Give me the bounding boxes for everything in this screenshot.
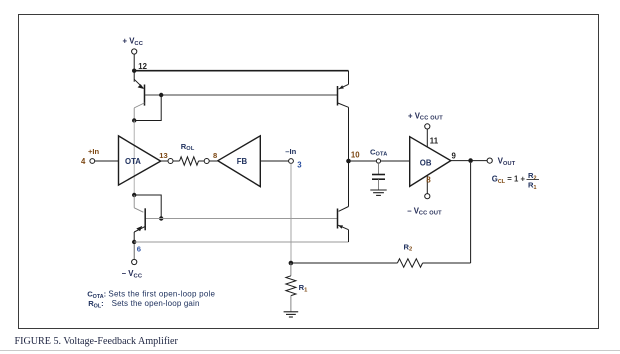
capacitor COTA — [372, 163, 385, 190]
+Vcc terminal — [132, 49, 137, 54]
-Vcc supply label — [122, 269, 143, 279]
capacitor COTA tap terminal — [376, 159, 380, 163]
pin 8 label — [213, 151, 217, 160]
wire top base rail — [145, 94, 338, 96]
svg-text:8: 8 — [426, 176, 431, 185]
wire Vcc terminal to node 12 — [133, 54, 135, 71]
pin 8 label (OB) — [426, 176, 431, 185]
+In input label — [88, 147, 100, 156]
svg-text:R2: R2 — [404, 242, 413, 252]
svg-text:FIGURE 5. Voltage-Feedback Amp: FIGURE 5. Voltage-Feedback Amplifier — [15, 336, 179, 347]
Vout label — [498, 157, 516, 167]
ground (R1) — [284, 312, 299, 317]
svg-text:11: 11 — [430, 136, 439, 145]
svg-text:COTA: COTA — [370, 147, 387, 157]
+Vcc supply label — [123, 37, 144, 47]
svg-text:8: 8 — [213, 151, 217, 160]
wire Rol to pin 8 — [199, 160, 205, 162]
svg-text:OB: OB — [420, 158, 432, 167]
svg-text:FB: FB — [237, 157, 248, 166]
-Vcc out supply label — [407, 207, 442, 217]
pin 13 terminal — [168, 159, 173, 164]
transistor Q4 (bottom-right mirror) — [338, 161, 349, 242]
svg-text:Sets the first open-loop pole: Sets the first open-loop pole — [108, 290, 215, 299]
+Vcc out supply label — [408, 112, 443, 122]
node bottom-left collector junction — [132, 193, 136, 197]
junction on bottom base rail — [159, 216, 163, 220]
op-amp OB output buffer — [410, 137, 451, 187]
node pin 6 junction — [132, 240, 136, 244]
wire -In feedback column — [290, 163, 292, 263]
pin 11 label — [430, 136, 439, 145]
svg-text:6: 6 — [137, 245, 141, 254]
wire R1 to ground — [290, 296, 292, 312]
wire FB to -In terminal — [260, 160, 288, 162]
wire +In to OTA — [95, 160, 119, 162]
wire diode tie top (base to collector) — [134, 95, 161, 121]
pin 9 label — [452, 152, 457, 161]
svg-text:R1: R1 — [299, 283, 308, 293]
wire pin 8 to FB — [209, 160, 218, 162]
svg-text:10: 10 — [351, 150, 360, 159]
ground (COTA) — [370, 190, 386, 195]
svg-text:– VCC OUT: – VCC OUT — [407, 207, 442, 217]
-In label — [285, 147, 296, 156]
svg-text:–In: –In — [285, 147, 296, 156]
wire feedback node to R1 — [290, 263, 292, 276]
wire OTA bias column (through OTA symbol) — [133, 121, 135, 196]
pin 10 label — [351, 150, 360, 159]
wire feedback node to R2 — [291, 262, 398, 264]
wire OB output — [451, 160, 487, 162]
svg-text:+ VCC OUT: + VCC OUT — [408, 112, 443, 122]
resistor R1 — [286, 276, 296, 296]
resistor ROL — [180, 157, 199, 165]
-In terminal pin 3 — [289, 159, 294, 164]
transistor Q1 (top-left PNP, diode-connected) — [134, 79, 144, 120]
svg-text:– VCC: – VCC — [122, 269, 143, 279]
pin 13 label — [159, 151, 167, 160]
op-amp OTA — [119, 136, 161, 185]
wire +Vcc out to OB — [426, 129, 428, 147]
wire node 10 to OB input — [349, 160, 410, 162]
svg-text:3: 3 — [297, 161, 302, 170]
pin 8 terminal (FB input) — [204, 159, 209, 164]
note ROL — [88, 299, 199, 310]
note COTA — [87, 290, 215, 301]
figure caption — [15, 336, 179, 347]
pin 6 label — [137, 245, 141, 254]
svg-text:ROL: ROL — [181, 142, 195, 152]
svg-text:GCL = 1 +: GCL = 1 + — [492, 175, 526, 186]
svg-text:+ VCC: + VCC — [123, 37, 144, 47]
node 12 junction — [132, 69, 136, 73]
gain equation — [492, 171, 539, 191]
wire R2 to output column — [423, 262, 471, 264]
+In terminal pin 4 — [90, 159, 95, 164]
-Vcc terminal — [132, 259, 137, 264]
svg-text:12: 12 — [138, 62, 147, 71]
+Vcc out terminal — [425, 124, 430, 129]
page rule — [0, 350, 620, 352]
svg-text:9: 9 — [452, 152, 457, 161]
pin 3 label — [297, 161, 302, 170]
svg-text:Sets the open-loop gain: Sets the open-loop gain — [112, 299, 200, 308]
node feedback junction — [289, 261, 294, 266]
resistor ROL label — [181, 142, 195, 152]
svg-text:13: 13 — [159, 151, 167, 160]
pin 4 label — [81, 157, 86, 166]
svg-text:VOUT: VOUT — [498, 157, 516, 167]
svg-text:+In: +In — [88, 147, 100, 156]
transistor Q3 (top-right PNP mirror) — [338, 71, 349, 161]
svg-text:OTA: OTA — [125, 157, 141, 166]
wire bottom supply rail — [134, 241, 348, 243]
wire output feedback column — [470, 163, 472, 263]
wire node 12 down to Q1 emitter — [133, 71, 135, 82]
-Vcc out terminal — [425, 194, 430, 199]
resistor R2 label — [404, 242, 413, 252]
junction on top base rail — [159, 93, 163, 97]
node 10 junction — [346, 159, 351, 164]
node output junction — [468, 158, 473, 163]
wire OTA apex to pin 13 — [161, 160, 168, 162]
node top-left collector junction — [132, 118, 136, 122]
Vout terminal — [487, 158, 492, 163]
pin 12 label — [138, 62, 147, 71]
transistor Q2 (bottom-left, diode-connected) — [134, 195, 145, 242]
svg-text:R1: R1 — [528, 180, 536, 191]
wire pin13 to Rol — [173, 160, 180, 162]
op-amp FB buffer — [218, 136, 260, 187]
capacitor COTA label — [370, 147, 387, 157]
wire diode tie bottom — [134, 195, 161, 219]
wire node 6 to -Vcc terminal — [133, 244, 135, 259]
svg-text:4: 4 — [81, 157, 86, 166]
svg-text:ROL:: ROL: — [88, 299, 104, 310]
resistor R1 label — [299, 283, 308, 293]
wire OB to -Vcc out — [426, 176, 428, 194]
resistor R2 — [397, 259, 422, 267]
wire bottom base rail — [145, 218, 338, 220]
wire top supply rail — [134, 70, 348, 72]
